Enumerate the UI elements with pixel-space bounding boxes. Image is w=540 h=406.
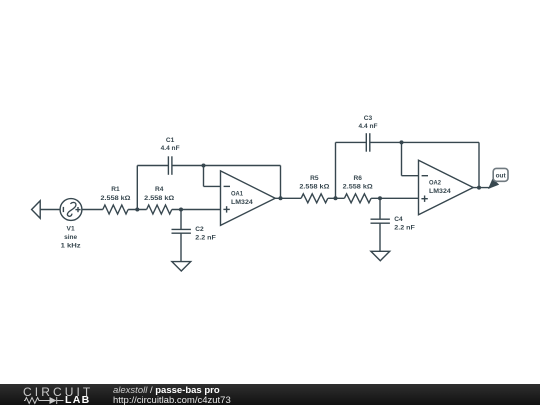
ground — [172, 262, 191, 271]
svg-text:1 kHz: 1 kHz — [61, 243, 82, 250]
wire down to OA1 minus — [203, 166, 205, 187]
wire C1 left leg — [136, 166, 138, 210]
svg-text:R6: R6 — [353, 175, 362, 182]
wire OA1 output to R5 — [275, 197, 301, 199]
wire OA2 output — [473, 187, 490, 189]
svg-text:out: out — [496, 173, 507, 180]
wire flag to V1 — [40, 209, 60, 211]
svg-text:2.2 nF: 2.2 nF — [394, 224, 415, 231]
output flag out — [493, 168, 508, 181]
capacitor C3 — [366, 133, 370, 152]
wire C4 top leg — [379, 198, 381, 219]
wire down to OA2 minus — [401, 142, 403, 175]
svg-text:2.558 kΩ: 2.558 kΩ — [343, 184, 374, 191]
capacitor C2 — [172, 229, 191, 233]
svg-text:sine: sine — [64, 234, 77, 241]
wire R4 to OA1 plus input — [172, 209, 221, 211]
svg-text:V1: V1 — [67, 225, 75, 232]
svg-text:R5: R5 — [310, 175, 319, 182]
junction node R6/C4/OA2+ — [378, 196, 382, 200]
svg-text:4.4 nF: 4.4 nF — [161, 145, 180, 152]
svg-text:C3: C3 — [364, 115, 373, 122]
wire C2 top leg — [180, 210, 182, 230]
capacitor C4 — [371, 219, 390, 223]
junction node OA2 out — [477, 186, 481, 190]
wire R5 to R6 — [328, 197, 345, 199]
wire C2 to ground — [180, 233, 182, 261]
resistor R5 — [301, 194, 328, 203]
wire into OA2 minus input — [402, 175, 419, 177]
input flag IN — [32, 201, 41, 219]
op-amp OA1 — [221, 171, 276, 226]
svg-text:R4: R4 — [155, 186, 164, 193]
junction node R5/R6/C3 — [334, 196, 338, 200]
capacitor C1 — [168, 156, 172, 175]
wire feedback right leg — [280, 166, 282, 199]
wire C1 to feedback corner — [172, 165, 281, 167]
svg-text:2.2 nF: 2.2 nF — [195, 235, 216, 242]
wire feedback right leg — [478, 142, 480, 187]
svg-text:2.558 kΩ: 2.558 kΩ — [299, 184, 330, 191]
svg-text:C4: C4 — [394, 216, 403, 223]
wire to C3 — [336, 141, 367, 143]
svg-text:C1: C1 — [166, 137, 175, 144]
junction node R4/C2/OA1+ — [179, 208, 183, 212]
resistor R6 — [344, 194, 371, 203]
wire to C1 — [137, 165, 168, 167]
svg-text:C2: C2 — [195, 226, 204, 233]
junction node OA1 out — [279, 196, 283, 200]
wire C4 to ground — [379, 223, 381, 251]
output flag pointer — [488, 178, 499, 189]
svg-text:LM324: LM324 — [429, 188, 451, 195]
svg-text:OA1: OA1 — [231, 190, 243, 197]
svg-text:LM324: LM324 — [231, 199, 253, 206]
footer bar — [0, 384, 540, 405]
wire R6 to OA2 plus input — [371, 197, 418, 199]
wire C3 left leg — [335, 142, 337, 198]
resistor R4 — [147, 205, 172, 214]
ground — [371, 251, 390, 260]
voltage source V1 — [60, 199, 82, 221]
svg-text:4.4 nF: 4.4 nF — [359, 123, 378, 130]
svg-text:OA2: OA2 — [429, 180, 441, 187]
wire R1 to R4 — [128, 209, 147, 211]
wire V1 to R1 — [82, 209, 103, 211]
junction node feedback/OA1 minus branch — [202, 164, 206, 168]
op-amp OA2 — [419, 160, 474, 215]
svg-text:2.558 kΩ: 2.558 kΩ — [144, 195, 175, 202]
wire C3 to feedback corner — [370, 141, 479, 143]
wire into OA1 minus input — [204, 185, 221, 187]
junction node R1/R4/C1 — [135, 208, 139, 212]
svg-text:R1: R1 — [111, 186, 120, 193]
junction node feedback/OA2 minus branch — [400, 140, 404, 144]
resistor R1 — [103, 205, 128, 214]
svg-text:2.558 kΩ: 2.558 kΩ — [101, 195, 132, 202]
